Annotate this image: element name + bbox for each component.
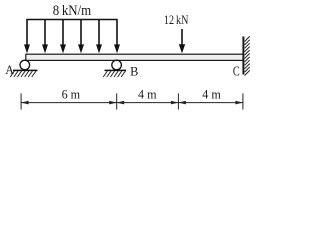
distributed load arrow 1 [24,20,30,54]
beam AB-C (main beam body) [26,54,243,60]
dim arrows at load tick [171,101,179,105]
support B ground line [105,69,127,71]
svg-text:8 kN/m: 8 kN/m [53,3,91,19]
support B roller circle [112,60,122,70]
distributed load arrow 5 [96,20,102,54]
support A ground line [13,69,38,71]
svg-text:C: C [233,63,240,79]
distributed load arrow 4 [78,20,84,54]
svg-text:6 m: 6 m [62,88,81,102]
support B ground hatching [103,71,125,77]
svg-text:12 kN: 12 kN [164,14,189,27]
dim arrow right end [235,101,243,105]
distributed load arrow 2 [42,20,48,54]
distributed load arrow 6 [114,20,120,54]
support A roller circle [20,60,30,70]
dim arrow left end [21,101,29,105]
wall hatching [245,36,250,75]
svg-text:4 m: 4 m [202,88,221,102]
dimension tick at B [116,93,118,109]
dimension tick at load point [177,93,179,109]
dimension tick at C [242,93,244,109]
dimension tick at A [20,93,22,109]
distributed load 8 kN/m top line [26,19,117,21]
svg-text:A: A [5,63,14,77]
dim arrows at B tick [109,101,117,105]
svg-text:B: B [130,64,138,78]
dimension baseline [21,102,243,104]
support A ground hatching [10,71,36,77]
fixed wall at C [242,37,244,75]
distributed load arrow 3 [60,20,66,54]
svg-text:4 m: 4 m [138,88,157,102]
point load 12 kN arrow [179,29,185,53]
